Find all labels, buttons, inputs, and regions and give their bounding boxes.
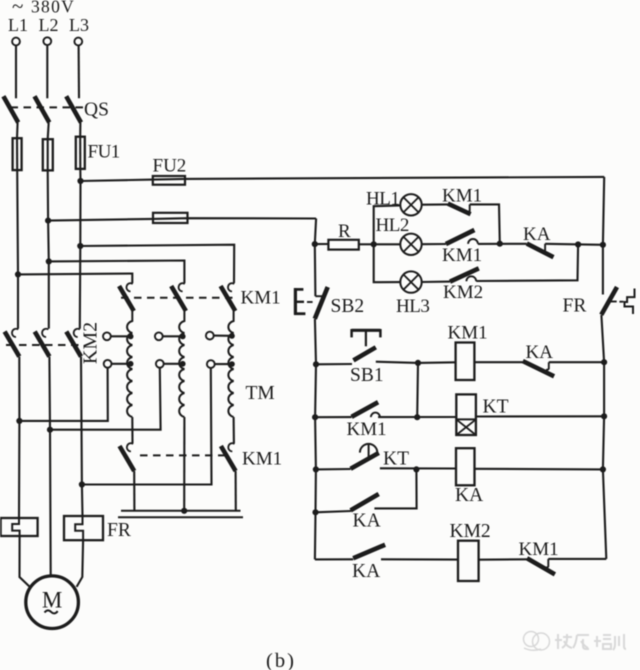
junction SB1 output node [415, 360, 421, 366]
contactor KM2 run pole1 [12, 329, 18, 337]
left control rail lower segment [315, 319, 316, 560]
junction left rail row3 [313, 466, 319, 472]
svg-text:KM2: KM2 [80, 322, 102, 364]
terminal L1 [12, 38, 20, 46]
contact KM1 NO selfhold terminal [371, 413, 380, 418]
svg-text:L2: L2 [39, 15, 59, 35]
svg-text:(b): (b) [266, 650, 296, 670]
contact KA NO row5 blade [353, 545, 385, 559]
wire KT coil to rail [476, 415, 604, 417]
wire HL2 to KM1 make contact [422, 243, 446, 245]
junction winding2 at star bus [181, 508, 187, 514]
wire KA NC row1 to rail [549, 361, 604, 363]
watermark logo [524, 632, 550, 651]
contact KM1 NC interlock blade [527, 558, 555, 574]
wire KM1 NC to right rail corner [548, 558, 606, 560]
coil KA [456, 448, 475, 485]
junction tap2 to motor line L2 [47, 427, 53, 433]
lamp HL2 [400, 234, 421, 255]
push button SB2 stop contact [315, 295, 322, 297]
terminal L2 [43, 37, 51, 45]
svg-text:L1: L1 [8, 15, 28, 35]
contact KA NO selfhold blade [351, 494, 379, 510]
switch QS linkage dashed [11, 106, 84, 108]
contact KM1 NC interlock terminal [545, 559, 548, 568]
svg-text:M: M [42, 588, 62, 613]
thermal overload FR heater2 element [75, 516, 83, 540]
wire riser to HL1 branch [374, 205, 401, 244]
svg-text:SB2: SB2 [331, 296, 365, 317]
svg-text:R: R [338, 221, 351, 242]
svg-text:KA: KA [352, 561, 380, 582]
svg-text:KA: KA [526, 342, 554, 363]
contactor KM2 run linkage dashed [6, 344, 84, 346]
wire KA NC to right rail [545, 244, 603, 245]
junction row2 node [414, 414, 420, 420]
wire FR heater2 to motor [77, 540, 84, 587]
junction HL1 branch joins [497, 241, 503, 247]
contact KA NC lamp row terminal [542, 244, 545, 252]
wire riser to HL3 branch [374, 244, 401, 282]
switch QS pole 2 blade [35, 96, 50, 122]
svg-text:HL1: HL1 [366, 189, 399, 210]
wire KM2 coil to KM1 NC [479, 558, 527, 561]
contactor KM1 start pole3 [228, 283, 234, 291]
contact KM1 NO selfhold blade [352, 402, 379, 417]
tap terminal lower winding2 wired [156, 360, 164, 368]
fuse FU1 pole3 [79, 137, 81, 169]
svg-text:HL3: HL3 [396, 296, 429, 317]
svg-text:KT: KT [483, 397, 509, 418]
coil KT with delay element [456, 394, 476, 435]
svg-text:FR: FR [563, 296, 587, 317]
wire KM1 NO to KA NC [478, 243, 527, 245]
svg-text:HL2: HL2 [376, 215, 409, 236]
svg-text:KM1: KM1 [519, 539, 559, 560]
lamp HL1 [400, 194, 421, 215]
wire KT contact to KA coil [380, 467, 456, 469]
wire KA selfhold up to row3 node [374, 469, 416, 508]
wire resistor to lamp node [359, 243, 374, 245]
wire QS pole3 to FU1 [79, 123, 81, 137]
contact KM1 NC lamp row1 terminal [467, 204, 470, 212]
wire feed L2 to KM1 start pole2 [49, 261, 185, 284]
contactor KM1 start linkage dashed [121, 297, 236, 299]
contact KT delayed NO arc [360, 444, 377, 453]
wire winding2 bottom to star bus [183, 417, 185, 511]
wire tap1 to motor line [19, 368, 107, 421]
svg-text:FU1: FU1 [88, 142, 120, 163]
wire SB1 node to KM1 coil [418, 361, 456, 364]
left control rail upper segment [315, 219, 316, 297]
fuse FU1 pole2 [47, 139, 49, 170]
wire rail to KM1 aux contact [315, 416, 352, 418]
thermal overload FR NC link dash [619, 301, 623, 303]
wire rail to KT delayed contact [316, 468, 351, 470]
motor M tilde [45, 610, 58, 613]
coil KM1 [456, 343, 475, 381]
svg-text:KA: KA [523, 224, 551, 245]
thermal overload FR NC contact tick [607, 301, 617, 303]
autotransformer TM winding 2 [179, 311, 184, 417]
wire KA row5 to KM2 coil [381, 558, 458, 560]
wire L3 rail down to KM2 [79, 169, 82, 329]
fuse FU2 upper [153, 176, 185, 185]
svg-text:FR: FR [107, 520, 131, 541]
junction L2 to FU2 line2 [45, 218, 51, 224]
contact KM2 NO lamp row blade [450, 268, 479, 281]
junction right rail row3 [600, 466, 606, 472]
wire KM2 pole2 down to motor [49, 357, 50, 576]
push button SB1 start actuator [352, 329, 381, 332]
wire KM1 coil to KA NC [474, 361, 522, 363]
svg-text:KA: KA [353, 511, 381, 532]
svg-text:FU2: FU2 [153, 156, 187, 177]
tap terminal upper winding3 [206, 332, 214, 340]
wire HL1 to KM1 break contact [422, 203, 448, 205]
svg-text:KM2: KM2 [450, 521, 491, 542]
thermal overload FR heater1 element [12, 518, 19, 536]
wire KM1 star pole2 to bus [235, 471, 237, 511]
junction HL3 branch joins [575, 241, 581, 247]
contactor KM1 star linkage dashed [140, 454, 229, 456]
push button SB2 stop actuator [294, 288, 297, 315]
wire KM1 aux to KT coil [378, 416, 456, 418]
switch QS pole 3 blade [66, 96, 81, 122]
wire FR heater1 to motor [20, 536, 30, 587]
motor M circle [26, 576, 79, 629]
wire tap2 to motor line [50, 368, 161, 430]
wire KM2 pole1 down to motor via FR [18, 357, 20, 518]
junction L3 to FU2 line1 [77, 178, 83, 184]
right rail upper segment [603, 177, 604, 295]
star point bus line1 [121, 510, 241, 512]
svg-text:KM1: KM1 [347, 419, 387, 440]
junction L3 feed KM1 pole3 [77, 243, 83, 249]
wire L2 rail down to KM2 [48, 170, 49, 328]
junction tap1 to motor line L1 [16, 418, 22, 424]
contactor KM2 run pole3 [74, 329, 80, 337]
tap terminal upper winding2 [155, 332, 163, 340]
junction right rail row1 [601, 359, 607, 365]
junction left rail lamp bus [312, 241, 318, 247]
junction left rail row1 [313, 361, 319, 367]
svg-text:KM1: KM1 [448, 323, 488, 344]
svg-text:KM1: KM1 [241, 288, 281, 309]
wire lamp node to HL2 [374, 243, 401, 245]
thermal overload FR heater1 box [1, 518, 38, 536]
lamp HL3 [400, 271, 421, 292]
svg-text:KM1: KM1 [442, 245, 482, 266]
contact KM1 NO lamp row2 blade [446, 230, 475, 244]
wire winding3 bottom to KM1 star pole2 [233, 417, 235, 443]
contactor KM1 start pole1 [126, 283, 132, 291]
svg-text:TM: TM [246, 383, 275, 404]
star point bus line2 [118, 516, 243, 518]
tap terminal lower winding3 wired [207, 360, 215, 368]
tap terminal upper winding1 [103, 332, 111, 340]
svg-text:L3: L3 [69, 15, 89, 35]
wire L2 drop to QS [46, 45, 48, 98]
autotransformer TM winding 3 [228, 311, 233, 417]
thermal overload FR NC contact blade [601, 287, 617, 315]
contact KA NC row1 terminal [546, 362, 549, 370]
autotransformer TM winding 1 [127, 311, 132, 417]
contact KT delayed NO blade [351, 453, 379, 469]
wire QS pole1 to FU1 [16, 123, 19, 139]
contactor KM2 run pole2 [42, 329, 48, 337]
wire KM1 star pole1 to bus [133, 471, 135, 511]
thermal overload FR NC actuator hook [625, 289, 635, 315]
contactor KM1 star pole2 [228, 443, 234, 451]
contact KM1 NC lamp row1 blade [448, 204, 471, 215]
tap terminal lower winding1 wired [104, 360, 112, 368]
junction right rail row2 [601, 413, 607, 419]
svg-text:SB1: SB1 [350, 365, 384, 386]
wire KM2 NO up to lamp bus [476, 245, 578, 282]
wire HL3 to KM2 contact [422, 281, 450, 283]
contact KM2 NO lamp row terminal [466, 276, 476, 281]
fuse FU1 pole1 [16, 138, 18, 170]
svg-text:KM1: KM1 [242, 449, 282, 470]
wire KA coil to rail [475, 468, 603, 471]
junction L2 feed KM1 pole2 [46, 258, 52, 264]
wire KM2 pole3 down to motor via FR [81, 357, 83, 516]
junction L1 feed KM1 pole1 [15, 271, 21, 277]
thermal overload FR heater2 box [64, 516, 103, 540]
contactor KM1 start pole2 [179, 283, 185, 291]
coil KM2 [458, 541, 479, 581]
wire SB1 node down to row2 [416, 363, 419, 417]
svg-text:KM2: KM2 [443, 282, 483, 303]
wire FU2 line2 L2 to control rail [48, 218, 316, 220]
junction right rail lamp bus [600, 242, 606, 248]
contact KM1 NO lamp row2 terminal [468, 239, 478, 244]
wire tap3 to motor line [82, 368, 212, 485]
svg-text:KT: KT [383, 449, 409, 470]
push button SB1 start contact [316, 363, 352, 365]
watermark text [555, 634, 572, 649]
junction row3 node [413, 466, 419, 472]
terminal L3 [74, 38, 82, 46]
contactor KM1 star pole1 [127, 443, 133, 451]
resistor R [328, 240, 358, 250]
wire feed L1 to KM1 start pole1 [18, 274, 132, 284]
contact KA NC lamp row blade [527, 244, 554, 258]
svg-text:QS: QS [84, 100, 109, 121]
wire L3 drop to QS [78, 46, 81, 99]
wire FU2 line1 L3 to right rail [81, 177, 605, 181]
wire QS pole2 to FU1 [48, 123, 49, 140]
wire L1 rail down to KM2 [16, 170, 19, 329]
fuse FU2 lower [153, 213, 188, 223]
wire L1 drop to QS [15, 46, 17, 99]
switch QS pole 1 blade [3, 96, 18, 122]
right rail lower segment [601, 315, 606, 559]
wire rail to KA row5 contact [315, 558, 353, 560]
wire lamp bus to resistor [315, 243, 329, 245]
svg-text:KA: KA [455, 485, 483, 506]
wire HL1 branch to lamp bus [470, 204, 500, 243]
contact KA NC row1 blade [523, 361, 554, 376]
wire rail to KA selfhold [316, 511, 352, 512]
wire winding1 bottom to KM1 star pole1 [131, 417, 133, 443]
wire feed L3 to KM1 start pole3 [80, 245, 234, 283]
junction lamp node [371, 241, 377, 247]
junction tap3 to motor line L3 [79, 481, 85, 487]
junction left rail row4 [312, 509, 318, 515]
junction left rail row2 [312, 414, 318, 420]
